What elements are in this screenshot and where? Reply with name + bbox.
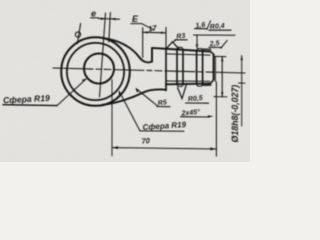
paper background <box>0 0 250 162</box>
R3 arrow <box>166 42 179 50</box>
dim 17 left arrow <box>143 31 148 33</box>
end bottom chamfer <box>210 80 213 84</box>
end face inner line <box>214 57 216 82</box>
top transition curve <box>103 38 153 62</box>
R5 arrow <box>135 88 139 93</box>
svg-text:2х45°: 2х45° <box>180 108 200 118</box>
svg-text:E: E <box>132 14 139 24</box>
end land top edge <box>203 48 211 50</box>
end face <box>213 54 215 80</box>
E leader <box>142 24 154 30</box>
groove 1 left wall <box>176 50 178 85</box>
R5 underline <box>157 106 170 108</box>
groove 1 top chamfer bump <box>176 47 183 50</box>
dim 70 extension right <box>215 82 217 156</box>
roughness flag circle <box>75 32 80 37</box>
end land bottom edge <box>203 84 211 86</box>
dimension e line <box>99 18 120 21</box>
shaft bottom edge <box>166 83 210 86</box>
svg-text:e: e <box>91 9 96 19</box>
dim d18 top arrow <box>221 56 223 61</box>
dim d18 line <box>221 56 223 97</box>
chamfer leader slash <box>221 40 228 48</box>
vertical centerline <box>100 13 106 97</box>
dim 70 extension left <box>111 80 113 156</box>
roughness leader drop <box>196 35 198 46</box>
svg-text:Ø18h8(-0,027): Ø18h8(-0,027) <box>230 85 240 143</box>
end top chamfer <box>210 52 213 55</box>
Sfera left leader <box>57 79 86 105</box>
outer vertical tick <box>239 82 246 84</box>
dimension e right arrow <box>110 18 115 21</box>
dim 70 line <box>112 148 216 149</box>
outer vertical mark arrow <box>241 56 243 61</box>
dim 17 line <box>143 31 166 34</box>
groove 1 right wall <box>182 50 184 84</box>
R3 leader <box>173 40 177 42</box>
svg-text:70: 70 <box>141 136 151 146</box>
dim 17 right arrow <box>161 32 166 34</box>
dim 70 right arrow <box>210 147 216 150</box>
dim 70 left arrow <box>112 146 118 149</box>
bottom transition curve <box>103 89 167 104</box>
sphere silhouette circle <box>67 43 124 100</box>
thread minor line top <box>166 54 210 55</box>
Sfera bottom leader <box>120 92 141 131</box>
d18 extension top <box>214 55 226 57</box>
groove 2 bottom chamfer bump <box>196 84 203 86</box>
offset axis line for e <box>109 13 111 43</box>
bore hole circle <box>84 54 114 84</box>
horizontal centerline <box>53 68 245 73</box>
R0.4 underline <box>209 29 231 31</box>
thread minor line bottom <box>166 80 210 82</box>
dim d18 bottom arrow <box>221 92 223 97</box>
2x45 underline leader <box>181 116 210 118</box>
2x45 arrow <box>208 115 214 117</box>
check mark R0.5 <box>178 84 187 98</box>
shoulder face <box>165 49 167 91</box>
groove 2 left wall <box>196 51 198 84</box>
eye outer circle <box>61 37 130 106</box>
R0.5 underline <box>186 102 209 104</box>
dim 17 extension left <box>142 28 144 58</box>
R3 underline <box>175 39 187 41</box>
2.5 underline <box>209 46 222 48</box>
label E underline <box>131 23 142 25</box>
groove 1 bottom chamfer bump <box>176 84 183 86</box>
label e underline <box>91 17 99 19</box>
top step face <box>151 48 153 62</box>
d18 extension bottom <box>214 96 227 98</box>
roughness leader shelf <box>194 34 236 36</box>
Sfera bottom underline <box>140 130 184 132</box>
dimension e left arrow <box>101 17 106 20</box>
separator slash <box>207 21 211 30</box>
Sfera bottom arrow <box>119 90 122 95</box>
roughness flag tail <box>77 23 80 43</box>
Sfera left underline <box>3 104 57 107</box>
shaft top edge <box>152 48 210 52</box>
1.6 underline <box>195 28 207 30</box>
outer vertical mark <box>241 56 243 127</box>
groove 2 top chamfer bump <box>196 49 203 51</box>
R5 leader <box>137 89 158 106</box>
groove 2 right wall <box>202 51 204 84</box>
dim 17 extension right upper <box>165 28 167 49</box>
Sfera left arrow <box>82 78 87 82</box>
roughness leader arrow <box>196 44 199 49</box>
